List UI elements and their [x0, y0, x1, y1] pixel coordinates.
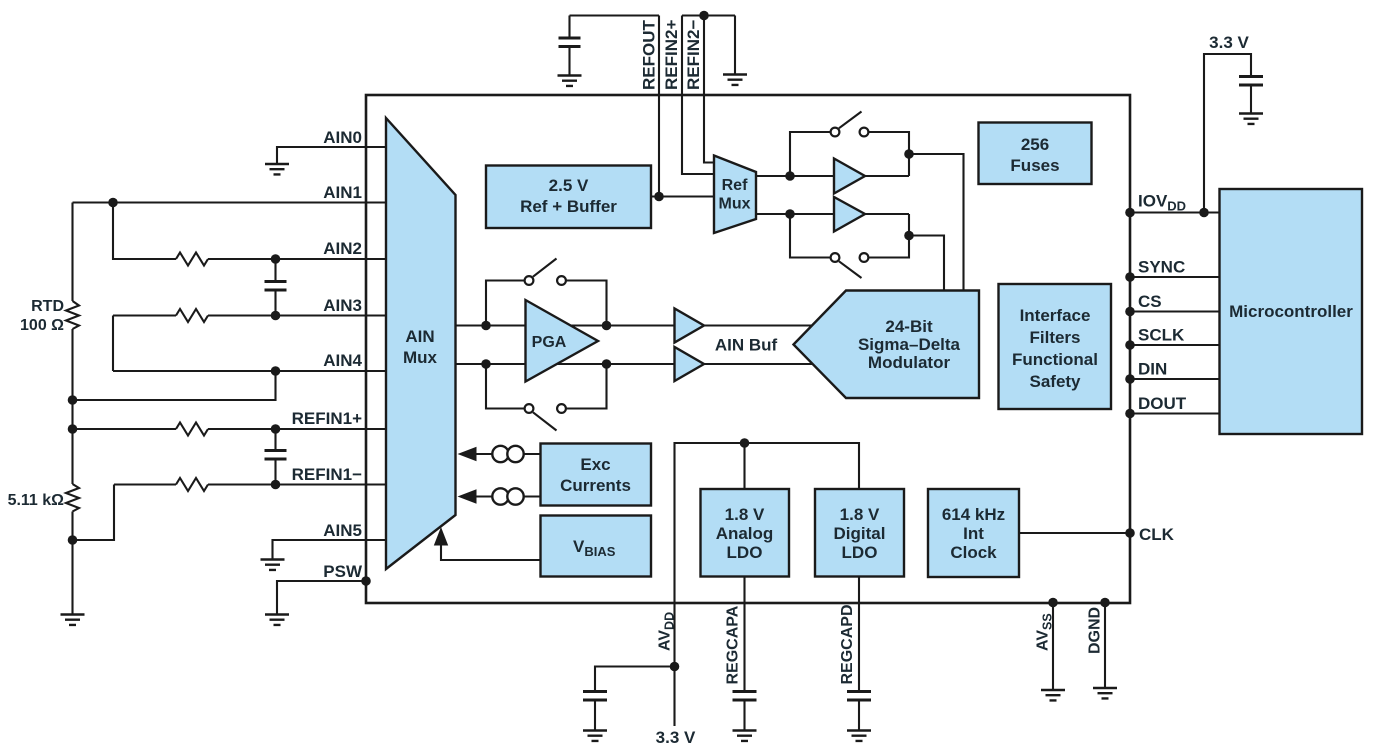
node ref top bypass junction: [904, 149, 914, 159]
node AIN4 junction: [271, 366, 281, 376]
svg-text:Ref: Ref: [722, 177, 748, 194]
ground left rail: [61, 615, 85, 625]
node pga top right junction: [602, 321, 612, 331]
svg-text:Mux: Mux: [719, 196, 751, 213]
wire AIN5: [273, 540, 387, 559]
wire REFIN1+ left: [73, 428, 177, 430]
wire left rail lower: [71, 512, 73, 615]
svg-text:1.8 V: 1.8 V: [725, 505, 765, 524]
capacitor REFIN1: [265, 429, 287, 485]
node ref bottom bypass junction: [904, 231, 914, 241]
buffer A1: [834, 159, 865, 194]
svg-text:24-Bit: 24-Bit: [885, 317, 933, 336]
wire REGCAPD: [858, 577, 860, 692]
node REFIN1- junction: [271, 480, 281, 490]
wire IOVDD: [1130, 211, 1220, 213]
resistor RTD: [66, 301, 79, 329]
svg-text:PSW: PSW: [323, 562, 363, 581]
ground 3.3V cap: [1239, 114, 1263, 124]
node AIN1 junction: [108, 198, 118, 208]
svg-text:CLK: CLK: [1139, 525, 1175, 544]
ground: [558, 76, 582, 86]
svg-text:Modulator: Modulator: [868, 353, 951, 372]
wire AIN1: [73, 201, 387, 203]
wire to modulator right vertical: [909, 154, 964, 291]
block 1.8V Analog LDO: [701, 489, 790, 577]
resistor AIN2: [176, 253, 208, 266]
svg-text:DOUT: DOUT: [1138, 394, 1187, 413]
svg-text:Interface: Interface: [1020, 306, 1091, 325]
node DIN pin: [1125, 374, 1135, 384]
capacitor REGCAPA: [733, 692, 757, 731]
resistor 5.11k: [66, 484, 79, 512]
node SCLK pin: [1125, 340, 1135, 350]
wire ref bottom bypass left: [790, 214, 831, 258]
svg-text:RTD: RTD: [31, 298, 64, 315]
wire CLK: [1019, 532, 1130, 534]
ground AVSS: [1041, 690, 1065, 700]
wire exc top: [476, 453, 541, 455]
wire PSW: [277, 581, 366, 614]
svg-text:Clock: Clock: [950, 543, 997, 562]
svg-text:Analog: Analog: [716, 524, 774, 543]
wire DIN: [1130, 378, 1220, 380]
switch S2: [831, 253, 869, 278]
wire buffer A2 output: [865, 213, 909, 215]
wire to modulator left vertical: [909, 236, 944, 291]
resistor AIN3: [176, 309, 208, 322]
svg-text:Ref + Buffer: Ref + Buffer: [520, 197, 617, 216]
wire ref top row: [756, 175, 834, 177]
switch S1: [831, 112, 869, 137]
svg-text:Mux: Mux: [403, 348, 438, 367]
svg-text:Int: Int: [963, 524, 984, 543]
wire REGCAPA: [743, 577, 745, 692]
node rail-AIN4 junction: [68, 395, 78, 405]
node AVSS pin: [1048, 598, 1058, 608]
node CS pin: [1125, 307, 1135, 317]
svg-text:Filters: Filters: [1029, 328, 1080, 347]
wire ref buffer output: [651, 195, 714, 197]
resistor REFIN1+: [176, 423, 208, 436]
node pga bottom left junction: [481, 359, 491, 369]
block 2.5V Ref + Buffer: [486, 166, 651, 229]
wire AVDD cap branch: [595, 667, 675, 692]
svg-text:2.5 V: 2.5 V: [549, 176, 589, 195]
wire SCLK: [1130, 344, 1220, 346]
capacitor AVDD: [583, 692, 607, 731]
wire REFIN2-: [704, 16, 714, 163]
current source I2: [492, 488, 523, 504]
svg-text:REGCAPA: REGCAPA: [725, 605, 742, 684]
ground REGCAPA: [733, 731, 757, 741]
node AIN3 junction: [271, 311, 281, 321]
wire pga bottom bypass left: [486, 364, 525, 409]
svg-text:CS: CS: [1138, 292, 1162, 311]
block Microcontroller: [1220, 189, 1363, 434]
svg-text:LDO: LDO: [842, 543, 878, 562]
wire AIN2: [208, 258, 386, 260]
node REFOUT tap: [654, 192, 664, 202]
block 1.8V Digital LDO: [815, 489, 904, 577]
svg-text:Fuses: Fuses: [1010, 156, 1059, 175]
svg-text:SYNC: SYNC: [1138, 258, 1185, 277]
svg-text:Functional: Functional: [1012, 350, 1098, 369]
svg-text:AIN3: AIN3: [323, 296, 362, 315]
capacitor 3.3V: [1239, 77, 1263, 114]
wire DOUT: [1130, 412, 1220, 414]
wire to ground: [734, 16, 736, 75]
wire DGND: [1104, 603, 1106, 688]
svg-text:AIN1: AIN1: [323, 183, 362, 202]
svg-text:100 Ω: 100 Ω: [20, 317, 64, 334]
wire SYNC: [1130, 276, 1220, 278]
wire left rail upper: [71, 203, 73, 302]
svg-text:LDO: LDO: [727, 543, 763, 562]
node REFIN1+ junction: [271, 424, 281, 434]
capacitor REGCAPD: [847, 692, 871, 731]
node AIN2 junction: [271, 254, 281, 264]
resistor REFIN1-: [176, 478, 208, 491]
svg-text:SCLK: SCLK: [1138, 326, 1185, 345]
arrow exc bottom: [458, 489, 477, 503]
block 614 kHz Int Clock: [928, 489, 1019, 577]
svg-text:REGCAPD: REGCAPD: [839, 604, 856, 684]
wire AVSS: [1052, 603, 1054, 690]
wire AIN4 to rail: [73, 371, 276, 400]
wire REFIN1- to rail: [73, 485, 115, 541]
ground REGCAPD: [847, 731, 871, 741]
svg-text:REFIN2−: REFIN2−: [684, 20, 703, 90]
svg-text:1.8 V: 1.8 V: [840, 505, 880, 524]
svg-text:256: 256: [1021, 135, 1049, 154]
wire pga bottom bypass right: [566, 364, 607, 409]
svg-text:DGND: DGND: [1087, 607, 1104, 654]
svg-text:Safety: Safety: [1029, 372, 1081, 391]
ground DGND: [1093, 688, 1117, 698]
block Exc Currents: [541, 444, 652, 506]
svg-text:Digital: Digital: [834, 524, 886, 543]
wire exc bottom: [476, 495, 541, 497]
wire REFIN1-: [208, 483, 386, 485]
arrow vbias: [434, 527, 448, 546]
node ref bottom row junction: [785, 209, 795, 219]
node DOUT pin: [1125, 409, 1135, 419]
svg-text:REFOUT: REFOUT: [640, 20, 659, 91]
wire REFIN1+: [208, 428, 386, 430]
wire AIN4: [113, 370, 386, 372]
wire REFOUT: [658, 16, 660, 197]
node PSW pin: [361, 576, 371, 586]
buffer AIN Buf top: [675, 309, 705, 343]
svg-text:AIN4: AIN4: [323, 351, 362, 370]
svg-text:REFIN1+: REFIN1+: [292, 409, 362, 428]
buffer AIN Buf bottom: [675, 347, 705, 381]
wire AIN3 to AIN4 drop: [112, 316, 114, 372]
wire REFIN1- left: [114, 483, 176, 485]
mux U1 AIN Mux: [386, 118, 456, 569]
wire AIN1 to AIN2 drop: [113, 203, 176, 260]
wire ref top bypass left: [790, 132, 831, 176]
capacitor AIN2-AIN3: [265, 259, 287, 316]
svg-text:AIN: AIN: [405, 327, 434, 346]
wire REFIN2+: [682, 16, 714, 175]
switch S3: [525, 259, 566, 285]
block Interface Filters Functional Safety: [999, 284, 1112, 409]
wire CS: [1130, 310, 1220, 312]
ground AVDD cap: [583, 731, 607, 741]
wire analog ldo feed: [743, 443, 745, 489]
wire ref top bypass right: [869, 132, 910, 176]
block 256 Fuses: [979, 123, 1092, 185]
arrow exc top: [458, 447, 477, 461]
node rail bottom junction: [68, 535, 78, 545]
ground AIN0: [265, 164, 289, 174]
svg-text:614 kHz: 614 kHz: [942, 505, 1005, 524]
svg-text:Microcontroller: Microcontroller: [1229, 302, 1353, 321]
ADC chip boundary box: [366, 95, 1130, 603]
svg-text:5.11 kΩ: 5.11 kΩ: [8, 492, 65, 509]
node CLK pin: [1125, 528, 1135, 538]
wire pga top bypass left: [486, 281, 525, 326]
svg-text:Sigma–Delta: Sigma–Delta: [858, 335, 961, 354]
svg-text:DIN: DIN: [1138, 360, 1167, 379]
node pga top left junction: [481, 321, 491, 331]
amplifier PGA: [526, 300, 599, 382]
svg-text:REFIN1−: REFIN1−: [292, 465, 362, 484]
svg-text:REFIN2+: REFIN2+: [662, 20, 681, 90]
wire analog bottom row: [456, 363, 821, 365]
svg-text:PGA: PGA: [532, 334, 567, 351]
switch S4: [525, 404, 566, 430]
node IOVDD supply junction: [1199, 208, 1209, 218]
svg-text:3.3 V: 3.3 V: [1209, 33, 1249, 52]
wire REFIN2+ top: [682, 14, 735, 16]
svg-text:AIN5: AIN5: [323, 521, 362, 540]
wire ref bottom row: [756, 213, 834, 215]
mux U2 Ref Mux: [714, 156, 756, 234]
node ldo feed junction: [740, 438, 750, 448]
node SYNC pin: [1125, 272, 1135, 282]
wire left rail middle: [71, 329, 73, 484]
wire REFOUT cap link: [570, 14, 660, 16]
wire AVDD rail: [675, 443, 860, 726]
wire AIN3: [208, 314, 386, 316]
node IOVDD pin: [1125, 208, 1135, 218]
svg-text:AIN0: AIN0: [323, 128, 362, 147]
wire buffer A1 output: [865, 175, 909, 177]
node DGND pin: [1100, 598, 1110, 608]
node REFIN1+ rail junction: [68, 424, 78, 434]
wire AIN0: [277, 147, 386, 164]
wire vbias: [441, 544, 541, 560]
node pga bottom right junction: [602, 359, 612, 369]
wire AIN3 left: [113, 314, 176, 316]
node REFIN2- junction: [699, 11, 709, 21]
svg-text:AIN Buf: AIN Buf: [715, 336, 778, 355]
node ref top row junction: [785, 171, 795, 181]
block 24-Bit Sigma-Delta Modulator: [794, 291, 980, 399]
current source I1: [492, 446, 523, 462]
capacitor REFOUT decoupling: [559, 16, 581, 76]
wire analog top row: [456, 324, 821, 326]
wire 3.3V supply: [1204, 54, 1251, 213]
svg-text:Currents: Currents: [560, 476, 631, 495]
svg-text:Exc: Exc: [580, 455, 610, 474]
buffer A2: [834, 197, 865, 232]
wire pga top bypass right: [566, 281, 607, 326]
node AVDD branch: [670, 662, 680, 672]
ground AIN5: [261, 560, 285, 570]
ground PSW: [265, 615, 289, 625]
svg-text:3.3 V: 3.3 V: [656, 728, 696, 747]
ground: [723, 75, 747, 85]
svg-text:AIN2: AIN2: [323, 239, 362, 258]
block VBIAS: [541, 516, 652, 577]
wire ref bottom bypass right: [869, 214, 910, 258]
